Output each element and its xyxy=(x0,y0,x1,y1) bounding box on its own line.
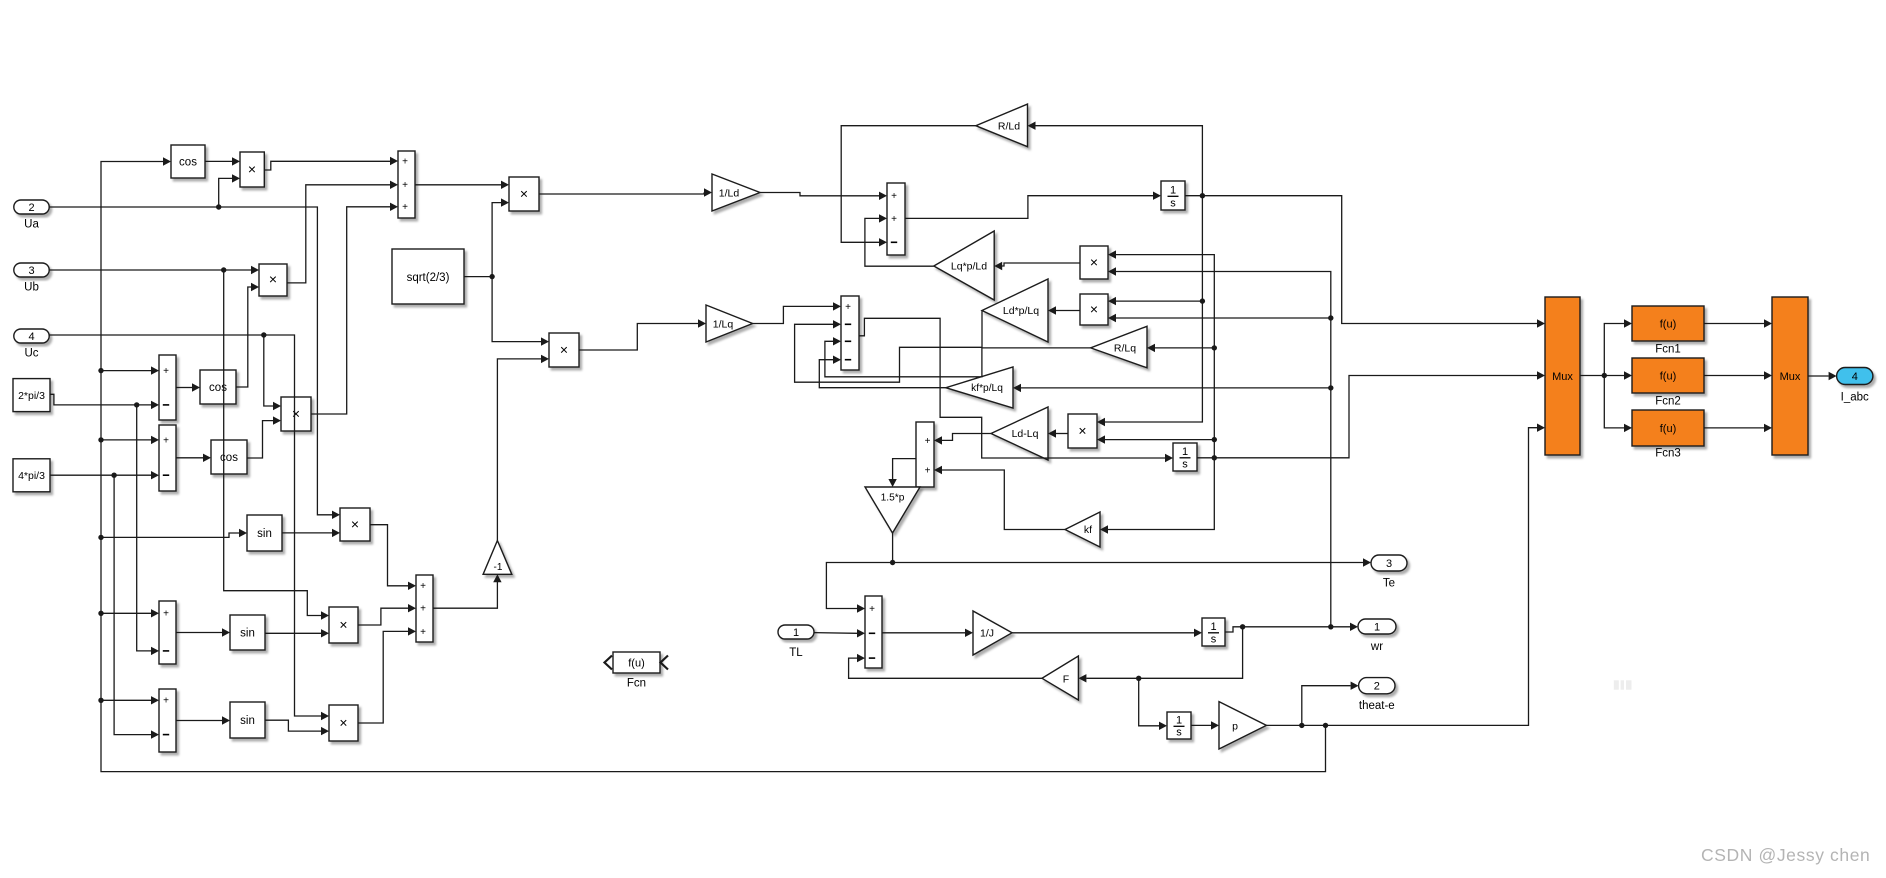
svg-text:1.5*p: 1.5*p xyxy=(881,493,905,504)
junction F/theta-integrator split xyxy=(1136,676,1141,681)
wire iq bus vertical up xyxy=(1116,255,1214,458)
svg-text:×: × xyxy=(339,617,347,633)
sum block SumD (d-axis) xyxy=(887,183,905,255)
function block Fcn f(u) unconnected xyxy=(613,652,660,673)
svg-text:Ld*p/Lq: Ld*p/Lq xyxy=(1003,305,1039,317)
svg-text:Lq*p/Ld: Lq*p/Ld xyxy=(951,261,987,273)
wire sqrt to X7 in2 xyxy=(492,203,501,277)
svg-text:F: F xyxy=(1063,674,1069,686)
mux Mux2 xyxy=(1772,297,1808,455)
wire 1/Ld to SumD in1 xyxy=(760,193,879,196)
wire sqrt(2/3) output xyxy=(464,276,492,278)
svg-text:sin: sin xyxy=(240,628,255,640)
svg-text:s: s xyxy=(1170,197,1176,209)
wire id to XB in1 xyxy=(1116,300,1202,302)
svg-text:+: + xyxy=(420,581,426,592)
svg-text:s: s xyxy=(1211,633,1217,645)
svg-text:+: + xyxy=(891,191,897,202)
svg-text:R/Ld: R/Ld xyxy=(998,121,1020,133)
wire cos1 to X1 in1 xyxy=(205,160,232,162)
gain -1 xyxy=(483,541,512,575)
svg-text:1/Ld: 1/Ld xyxy=(719,188,740,200)
wire Ub to X5 in1 xyxy=(224,270,321,616)
outport 4 I_abc xyxy=(1837,368,1873,385)
wire integrator theta to gain p xyxy=(1191,724,1211,726)
junction Ub branch xyxy=(221,267,226,272)
svg-text:kf: kf xyxy=(1084,524,1092,536)
product X4 xyxy=(340,508,370,541)
svg-text:s: s xyxy=(1182,458,1188,470)
wire Sum2 to cos3 xyxy=(176,457,203,459)
wire Ld*p/Lq to SumQ in2 xyxy=(795,311,982,383)
gain 1/J xyxy=(973,611,1012,655)
svg-text:TL: TL xyxy=(789,647,803,659)
wire XA to gain Lq*p/Ld xyxy=(1002,263,1080,266)
wire theta to Sum4 plus xyxy=(101,699,151,701)
product X1 xyxy=(240,152,264,187)
wire Sum0 to X7 in1 xyxy=(415,184,501,186)
wire Fcn3 to Mux2 in3 xyxy=(1704,427,1764,429)
wire Fcn1 to Mux2 in1 xyxy=(1704,323,1764,325)
wire Fcn2 to Mux2 in2 xyxy=(1704,375,1764,377)
junction theta to Sum2 xyxy=(98,437,103,442)
gain 1.5*p xyxy=(865,487,920,533)
junction theta feedback xyxy=(1323,723,1328,728)
wire theta feedback long bottom run xyxy=(101,162,1326,772)
svg-text:3: 3 xyxy=(28,265,34,277)
trig block cos2 xyxy=(200,370,236,404)
svg-text:cos: cos xyxy=(179,157,197,169)
wire Sum5 to gain -1 xyxy=(433,582,497,608)
wire theta to Sum1 plus xyxy=(101,370,151,372)
trig block sin3 xyxy=(230,702,265,738)
junction 4*pi/3 branch xyxy=(111,473,116,478)
junction 2*pi/3 branch xyxy=(134,402,139,407)
svg-text:CSDN @Jessy chen: CSDN @Jessy chen xyxy=(1701,845,1870,865)
svg-text:1: 1 xyxy=(1210,621,1216,633)
svg-text:+: + xyxy=(163,366,169,377)
product X5 xyxy=(329,607,358,643)
constant 4*pi/3 xyxy=(13,459,50,492)
outport 3 Te xyxy=(1371,555,1407,571)
wire 1.5*p to Te line xyxy=(893,533,1363,563)
wire iq to gain kf xyxy=(1108,458,1214,530)
junction wr to XB xyxy=(1328,315,1333,320)
svg-text:wr: wr xyxy=(1370,641,1383,653)
wire id bus from integrator xyxy=(1185,196,1537,324)
svg-text:+: + xyxy=(402,180,408,191)
svg-text:Uc: Uc xyxy=(24,348,38,360)
junction iq bus xyxy=(1212,455,1217,460)
wire F to SumW in3 xyxy=(849,658,1042,678)
junction wr to kf*p/Lq xyxy=(1328,385,1333,390)
trig block sin2 xyxy=(230,615,265,650)
svg-text:Fcn3: Fcn3 xyxy=(1655,448,1681,460)
svg-text:+: + xyxy=(845,302,851,313)
svg-text:+: + xyxy=(869,604,875,615)
wire integrator wr to outport wr xyxy=(1225,627,1350,632)
sum block SumT (torque, mirrored) xyxy=(916,422,934,487)
function block Fcn2 f(u) xyxy=(1632,358,1704,393)
junction theta/theat-e xyxy=(1299,723,1304,728)
inport 3 Ub xyxy=(14,263,49,277)
wire Mux1 output xyxy=(1580,375,1604,377)
wire id to gain R/Ld xyxy=(1036,126,1203,196)
svg-text:Ld-Lq: Ld-Lq xyxy=(1012,428,1039,440)
svg-text:s: s xyxy=(1176,726,1182,738)
wire iq bus from integrator xyxy=(1197,376,1537,458)
svg-text:+: + xyxy=(163,609,169,620)
integrator 1/s wr xyxy=(1202,618,1225,646)
wire 4*pi/3 to Sum2 minus xyxy=(50,474,151,476)
svg-text:2*pi/3: 2*pi/3 xyxy=(18,390,45,402)
product XC xyxy=(1068,414,1097,448)
sum block Sum1 (theta-2pi/3 cos) xyxy=(159,355,176,420)
gain p xyxy=(1219,702,1266,749)
wire cos2 to X2 in2 xyxy=(236,287,251,387)
wire wr to XB in2 xyxy=(1116,317,1331,319)
integrator 1/s id xyxy=(1161,181,1185,210)
junction theta to sin1 xyxy=(98,535,103,540)
svg-text:f(u): f(u) xyxy=(1660,423,1677,435)
wire X2 to Sum0 in2 xyxy=(287,185,390,283)
wire to Fcn1 xyxy=(1604,324,1624,376)
integrator 1/s theta xyxy=(1167,712,1191,739)
wire R/Lq to SumQ in3 xyxy=(825,341,1091,377)
wire X5 to Sum5 in2 xyxy=(358,608,408,625)
sum block Sum4 (theta-4pi/3 sin) xyxy=(159,689,176,752)
gain kf*p/Lq xyxy=(946,367,1013,408)
wire SumQ to integrator iq xyxy=(859,318,1165,458)
svg-text:×: × xyxy=(520,186,528,202)
wire X6 to Sum5 in3 xyxy=(358,631,408,723)
junction theta to Sum4 xyxy=(98,698,103,703)
svg-text:kf*p/Lq: kf*p/Lq xyxy=(971,383,1003,394)
svg-text:×: × xyxy=(351,516,359,532)
svg-text:+: + xyxy=(420,604,426,615)
svg-text:theat-e: theat-e xyxy=(1359,700,1395,712)
svg-text:+: + xyxy=(420,627,426,638)
svg-text:I_abc: I_abc xyxy=(1841,392,1869,404)
svg-text:Fcn2: Fcn2 xyxy=(1655,396,1681,408)
wire SumD to integrator id xyxy=(905,196,1153,219)
wire 2*pi/3 to Sum3 minus xyxy=(137,405,151,651)
junction iq to XC xyxy=(1212,437,1217,442)
watermark squares xyxy=(1614,680,1619,689)
svg-text:2: 2 xyxy=(1374,681,1380,693)
svg-text:1/Lq: 1/Lq xyxy=(713,319,734,331)
integrator 1/s iq xyxy=(1173,443,1197,471)
wire X3 to Sum0 in3 xyxy=(311,207,390,414)
svg-text:×: × xyxy=(1090,254,1098,270)
outport 1 wr xyxy=(1358,619,1396,634)
svg-text:+: + xyxy=(163,435,169,446)
svg-text:3: 3 xyxy=(1386,558,1392,570)
function block Fcn1 f(u) xyxy=(1632,306,1704,341)
svg-text:Fcn1: Fcn1 xyxy=(1655,344,1681,356)
wire kf*p/Lq to SumQ in4 xyxy=(819,360,946,388)
function block sqrt(2/3) xyxy=(392,249,464,304)
svg-text:4: 4 xyxy=(28,331,34,343)
svg-text:-1: -1 xyxy=(494,562,503,573)
inport 1 TL xyxy=(778,625,814,639)
svg-text:+: + xyxy=(402,202,408,213)
svg-text:+: + xyxy=(402,156,408,167)
svg-text:1/J: 1/J xyxy=(980,628,994,640)
wire 2*pi/3 to Sum1 minus xyxy=(50,394,151,405)
svg-text:+: + xyxy=(891,214,897,225)
wire XB to gain Ld*p/Lq xyxy=(1056,310,1080,312)
outport 2 theat-e xyxy=(1359,678,1395,694)
svg-text:cos: cos xyxy=(220,452,238,464)
wire wr bus vertical xyxy=(1116,272,1331,627)
wire X7 to gain 1/Ld xyxy=(539,193,704,195)
svg-text:1: 1 xyxy=(1170,184,1176,196)
wire iq to gain R/Lq xyxy=(1155,347,1214,349)
svg-text:×: × xyxy=(292,406,300,422)
wire wr to integrator theta xyxy=(1139,678,1159,726)
wire Ua to X1 in2 xyxy=(219,178,232,207)
svg-text:×: × xyxy=(1078,423,1086,439)
svg-text:f(u): f(u) xyxy=(1660,319,1677,331)
wire sqrt to X8 in1 xyxy=(492,277,541,342)
svg-text:p: p xyxy=(1232,721,1238,733)
svg-text:+: + xyxy=(163,696,169,707)
gain 1/Ld xyxy=(712,174,760,211)
sum block Sum0 (id sum) xyxy=(398,151,415,218)
sum block SumQ (q-axis) xyxy=(841,296,859,370)
trig block sin1 xyxy=(247,515,282,551)
junction iq to R/Lq xyxy=(1212,345,1217,350)
svg-text:4: 4 xyxy=(1852,371,1858,383)
wire Ld-Lq to SumT in1 xyxy=(942,434,991,441)
wire TL to SumW in2 xyxy=(814,632,857,635)
wire X4 to Sum5 in1 xyxy=(370,525,408,586)
svg-text:×: × xyxy=(339,715,347,731)
wire Ua to X4 xyxy=(49,207,332,515)
junction Mux1 output split xyxy=(1602,373,1607,378)
junction wr to F branch xyxy=(1240,624,1245,629)
svg-text:Te: Te xyxy=(1383,578,1395,590)
svg-text:1: 1 xyxy=(793,627,799,639)
svg-text:f(u): f(u) xyxy=(1660,371,1677,383)
wire id bus vertical xyxy=(1105,196,1202,422)
inport 2 Ua xyxy=(14,200,49,214)
svg-text:Ua: Ua xyxy=(24,219,39,231)
junction sqrt split xyxy=(489,274,494,279)
product XB xyxy=(1080,294,1108,325)
wire X8 to gain 1/Lq xyxy=(579,324,698,351)
svg-text:2: 2 xyxy=(28,202,34,214)
junction Ua branch xyxy=(216,204,221,209)
wire Uc to X3 in1 xyxy=(264,335,273,406)
wire SumT to gain 1.5*p xyxy=(893,459,916,479)
wire sin3 to X6 in2 xyxy=(265,720,321,731)
svg-text:1: 1 xyxy=(1176,714,1182,726)
product X6 xyxy=(329,705,358,741)
wire Lq*p/Ld to SumD in2 xyxy=(865,218,934,266)
junction Uc branch xyxy=(261,332,266,337)
wire theta from gain p to Mux1 in3 xyxy=(1266,428,1537,726)
wire Sum4 to sin3 xyxy=(176,720,222,722)
trig block cos1 xyxy=(171,145,205,178)
junction id bus xyxy=(1200,193,1205,198)
svg-text:Mux: Mux xyxy=(1780,371,1801,383)
product XA xyxy=(1080,246,1108,279)
wire 1/J to integrator wr xyxy=(1012,632,1194,634)
wire to Fcn3 xyxy=(1604,376,1624,428)
junction id to XB xyxy=(1200,298,1205,303)
wire theta to outport theat-e xyxy=(1302,686,1351,726)
junction wr bus source xyxy=(1328,624,1333,629)
wire R/Ld to SumD in3 xyxy=(841,126,976,243)
wire theta to sin1 xyxy=(101,533,239,537)
trig block cos3 xyxy=(211,440,247,474)
svg-text:Fcn: Fcn xyxy=(627,678,646,690)
wire 1/Lq to SumQ in1 xyxy=(753,306,833,323)
sum block SumW (speed) xyxy=(865,596,882,668)
wire Te line to SumW in1 xyxy=(826,563,892,609)
svg-text:sqrt(2/3): sqrt(2/3) xyxy=(407,272,450,284)
wire gain -1 to X8 in2 xyxy=(497,359,541,541)
svg-text:1: 1 xyxy=(1374,622,1380,634)
wire cos3 to X3 in2 xyxy=(247,421,273,458)
wire sin1 to X4 in2 xyxy=(282,532,332,534)
gain R/Ld xyxy=(976,104,1028,147)
svg-text:sin: sin xyxy=(240,715,255,727)
wire XC to gain Ld-Lq xyxy=(1056,433,1068,435)
constant 2*pi/3 xyxy=(13,379,50,412)
sum block Sum5 (iq sum) xyxy=(416,575,433,642)
product X7 xyxy=(509,177,539,211)
wire wr down to F xyxy=(1086,627,1242,679)
wire iq to XC in2 xyxy=(1105,439,1214,441)
gain kf xyxy=(1065,512,1100,547)
gain Lq*p/Ld xyxy=(934,231,994,300)
gain F xyxy=(1042,656,1078,700)
wire X1 to Sum0 in1 xyxy=(264,161,390,170)
wire Uc to X6 in1 xyxy=(49,335,321,716)
wire Sum3 to sin2 xyxy=(176,632,222,634)
sum block Sum3 (theta-2pi/3 sin) xyxy=(159,601,176,664)
gain Ld*p/Lq xyxy=(982,279,1048,342)
wire Mux2 to outport I_abc xyxy=(1808,375,1829,377)
svg-text:Ub: Ub xyxy=(24,282,39,294)
wire theta to Sum2 plus xyxy=(101,439,151,441)
wire sin2 to X5 in2 xyxy=(265,632,321,634)
sum block Sum2 (theta-4pi/3 cos) xyxy=(159,425,176,491)
inport 4 Uc xyxy=(14,329,49,343)
svg-text:sin: sin xyxy=(257,528,272,540)
wire 4*pi/3 to Sum4 minus xyxy=(114,475,151,734)
svg-text:1: 1 xyxy=(1182,446,1188,458)
wire SumW to gain 1/J xyxy=(882,632,965,634)
svg-text:cos: cos xyxy=(209,382,227,394)
function block Fcn3 f(u) xyxy=(1632,410,1704,446)
svg-text:f(u): f(u) xyxy=(628,658,645,670)
gain 1/Lq xyxy=(706,305,753,342)
svg-text:×: × xyxy=(269,271,277,287)
product X2 xyxy=(259,264,287,296)
svg-text:+: + xyxy=(925,436,931,447)
junction theta to Sum3 xyxy=(98,611,103,616)
wire Ub to X2 in1 xyxy=(49,269,251,271)
wire to Fcn2 xyxy=(1604,375,1624,377)
mux Mux1 xyxy=(1545,297,1580,455)
gain Ld-Lq xyxy=(991,407,1048,460)
svg-text:4*pi/3: 4*pi/3 xyxy=(18,470,45,482)
svg-text:+: + xyxy=(925,465,931,476)
wire theta to Sum3 plus xyxy=(101,612,151,614)
product X8 xyxy=(549,333,579,367)
svg-text:×: × xyxy=(1090,301,1098,317)
svg-text:×: × xyxy=(248,161,256,177)
svg-text:R/Lq: R/Lq xyxy=(1114,343,1136,355)
junction Te line xyxy=(890,560,895,565)
wire wr to gain kf*p/Lq xyxy=(1021,387,1331,389)
svg-text:Mux: Mux xyxy=(1552,371,1573,383)
product X3 xyxy=(281,397,311,431)
gain R/Lq xyxy=(1091,326,1147,368)
junction theta to Sum1 xyxy=(98,368,103,373)
wire Sum1 to cos2 xyxy=(176,387,192,389)
wire kf to SumT in2 xyxy=(942,470,1065,530)
svg-text:×: × xyxy=(560,342,568,358)
